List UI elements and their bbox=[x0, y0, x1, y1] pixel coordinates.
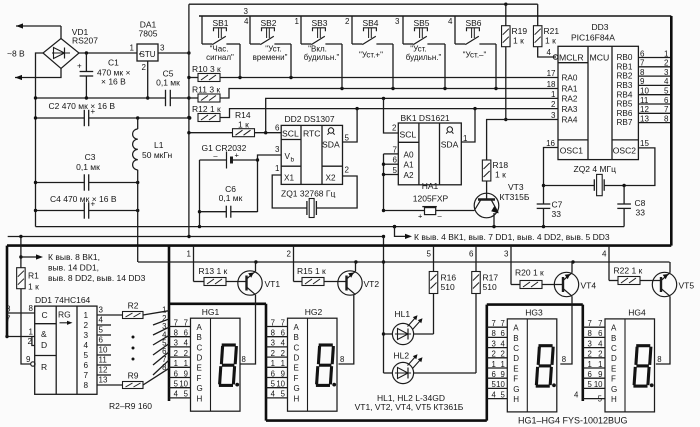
svg-text:A0: A0 bbox=[404, 150, 414, 159]
svg-text:5: 5 bbox=[598, 394, 603, 403]
label R2 bbox=[128, 301, 139, 311]
svg-text:3: 3 bbox=[587, 339, 591, 348]
svg-text:4: 4 bbox=[448, 17, 453, 26]
wire BK1 SDA bbox=[461, 109, 475, 142]
capacitor C4 470u bbox=[84, 200, 95, 219]
svg-text:8: 8 bbox=[242, 355, 246, 364]
svg-text:6: 6 bbox=[598, 329, 602, 338]
resistor R20 1k bbox=[511, 281, 563, 289]
svg-text:4: 4 bbox=[500, 339, 505, 348]
svg-text:× 16 В: × 16 В bbox=[101, 77, 126, 87]
rail C2 bbox=[34, 116, 192, 119]
svg-text:D: D bbox=[197, 354, 203, 363]
svg-text:2: 2 bbox=[184, 349, 188, 358]
+5V rail vertical bbox=[188, 4, 190, 235]
svg-text:1: 1 bbox=[271, 359, 275, 368]
label R17 bbox=[483, 273, 499, 293]
rail C3 bbox=[34, 181, 140, 184]
svg-text:2: 2 bbox=[587, 350, 591, 359]
svg-text:R17: R17 bbox=[483, 273, 499, 283]
svg-text:C7: C7 bbox=[552, 200, 563, 210]
svg-text:1: 1 bbox=[500, 360, 504, 369]
bus main horizontal bbox=[7, 244, 671, 247]
DD1 output stubs bbox=[97, 325, 111, 375]
resistor R16 510 bbox=[429, 272, 438, 335]
AC input arrow bottom bbox=[15, 69, 61, 81]
svg-text:R22 1 к: R22 1 к bbox=[614, 266, 643, 276]
svg-text:A: A bbox=[611, 324, 617, 333]
svg-text:КТ315Б: КТ315Б bbox=[500, 192, 530, 202]
svg-text:SB6: SB6 bbox=[465, 18, 481, 28]
svg-text:6: 6 bbox=[271, 369, 275, 378]
RTC DD2 box bbox=[281, 125, 342, 184]
svg-text:SB1: SB1 bbox=[212, 18, 228, 28]
transistor VT1 bbox=[238, 262, 262, 364]
svg-text:+: + bbox=[418, 212, 423, 221]
transistor VT4 bbox=[554, 262, 578, 364]
label SB3 bbox=[304, 18, 340, 62]
svg-text:7: 7 bbox=[393, 145, 398, 154]
bus net numbers top bbox=[244, 7, 454, 26]
pin 2 DA1 bbox=[142, 63, 147, 72]
bus tap 4 to R22 bbox=[602, 246, 609, 281]
svg-text:6: 6 bbox=[281, 329, 285, 338]
svg-text:R15 1 к: R15 1 к bbox=[297, 266, 326, 276]
label HG1 bbox=[202, 307, 246, 364]
svg-text:R: R bbox=[41, 362, 47, 372]
pin 3 DA1 bbox=[160, 44, 165, 53]
svg-text:1 к: 1 к bbox=[513, 36, 524, 46]
bus HG1-HG2 branch bbox=[169, 302, 266, 305]
svg-text:1: 1 bbox=[84, 311, 89, 320]
bus HG2 vertical bbox=[265, 304, 268, 421]
svg-text:RB4: RB4 bbox=[617, 90, 633, 99]
label R16 bbox=[441, 273, 457, 293]
svg-text:R19: R19 bbox=[512, 26, 528, 36]
display HG1 bbox=[169, 318, 240, 411]
pin 1 DA1 bbox=[130, 44, 135, 53]
svg-text:1 к: 1 к bbox=[28, 282, 39, 292]
svg-text:4: 4 bbox=[99, 316, 104, 325]
svg-text:SCL: SCL bbox=[282, 129, 299, 139]
svg-text:1: 1 bbox=[174, 359, 178, 368]
svg-text:4: 4 bbox=[281, 339, 286, 348]
svg-text:F: F bbox=[294, 374, 299, 383]
HG1 bus net numbers bbox=[162, 306, 167, 373]
svg-text:R14: R14 bbox=[235, 110, 251, 120]
label ~8 V bbox=[7, 49, 25, 59]
DD2 cell texts bbox=[282, 129, 340, 183]
label HL VT types bbox=[355, 393, 464, 412]
label R13 bbox=[199, 266, 228, 276]
label R1 bbox=[28, 271, 39, 292]
svg-text:18: 18 bbox=[547, 80, 556, 89]
DD1 output pin numbers bbox=[99, 306, 108, 385]
wire DD2 SDA bbox=[343, 109, 358, 142]
crystal ZQ2 4MHz bbox=[594, 174, 604, 195]
+5V feed wire bbox=[8, 235, 385, 238]
svg-text:R1: R1 bbox=[28, 271, 39, 281]
transistor VT3 KT315B bbox=[474, 193, 499, 226]
svg-text:RB1: RB1 bbox=[617, 62, 633, 71]
display HG4 bbox=[574, 319, 655, 412]
svg-text:R16: R16 bbox=[441, 273, 457, 283]
svg-text:8: 8 bbox=[84, 381, 89, 390]
svg-text:X2: X2 bbox=[326, 174, 336, 183]
svg-text:SCL: SCL bbox=[400, 130, 417, 140]
svg-text:SB3: SB3 bbox=[311, 18, 327, 28]
bus tap 1 to R13 bbox=[187, 246, 194, 282]
transistor VT2 bbox=[338, 262, 362, 364]
label BK1 DS1621 bbox=[401, 113, 450, 123]
svg-text:A: A bbox=[513, 324, 519, 333]
svg-text:1205FXP: 1205FXP bbox=[413, 194, 449, 204]
svg-text:"Уст.+": "Уст.+" bbox=[359, 51, 383, 60]
svg-text:A: A bbox=[197, 323, 203, 332]
svg-text:RA4: RA4 bbox=[562, 116, 578, 125]
svg-text:будильн.": будильн." bbox=[304, 53, 340, 62]
bus right vertical bbox=[670, 16, 673, 246]
label SB6 bbox=[463, 18, 487, 60]
svg-text:7: 7 bbox=[271, 318, 275, 327]
label R11 bbox=[192, 85, 220, 95]
resistor R18 1k bbox=[482, 160, 491, 200]
svg-text:3: 3 bbox=[504, 250, 509, 259]
svg-text:5: 5 bbox=[393, 166, 398, 175]
svg-text:SDA: SDA bbox=[322, 140, 340, 150]
svg-text:13: 13 bbox=[99, 376, 108, 385]
resistor R17 510 bbox=[472, 272, 481, 374]
resistor R12 1k bbox=[187, 114, 220, 122]
svg-text:VT4: VT4 bbox=[581, 281, 597, 291]
svg-text:VT2: VT2 bbox=[364, 279, 380, 289]
transistor VT5 bbox=[652, 262, 676, 364]
label G1 bbox=[202, 143, 247, 153]
svg-text:7: 7 bbox=[174, 318, 178, 327]
svg-text:A: A bbox=[294, 323, 300, 332]
bus net 8 to C bbox=[6, 305, 35, 314]
svg-text:R20 1 к: R20 1 к bbox=[515, 268, 544, 278]
bus bottom rail bbox=[266, 419, 487, 422]
svg-text:33: 33 bbox=[552, 209, 562, 219]
svg-text:SDA: SDA bbox=[441, 140, 459, 150]
svg-text:510: 510 bbox=[441, 282, 455, 292]
svg-text:1: 1 bbox=[184, 359, 188, 368]
svg-text:HG2: HG2 bbox=[305, 307, 323, 317]
svg-text:C: C bbox=[294, 343, 300, 352]
svg-text:C: C bbox=[513, 344, 519, 353]
inductor L1 50uH bbox=[133, 118, 138, 262]
gnd annotation arrow bbox=[393, 225, 412, 239]
pushbutton SB4 bbox=[352, 16, 393, 89]
svg-text:D: D bbox=[611, 354, 617, 363]
svg-text:4: 4 bbox=[547, 48, 552, 57]
svg-text:8: 8 bbox=[562, 355, 566, 364]
resistor R21 1k bbox=[533, 4, 556, 57]
bus tap 6 to R17 bbox=[469, 246, 476, 272]
svg-text:RG: RG bbox=[58, 310, 71, 320]
label R20 bbox=[515, 268, 544, 278]
label HG types bbox=[518, 416, 628, 426]
label SB5 bbox=[406, 18, 442, 62]
svg-text:HG4: HG4 bbox=[628, 308, 646, 318]
svg-text:будильн.": будильн." bbox=[406, 53, 442, 62]
svg-text:B: B bbox=[294, 333, 299, 342]
svg-text:H: H bbox=[197, 394, 203, 403]
svg-text:10: 10 bbox=[179, 380, 188, 389]
label OSC1 OSC2 bbox=[546, 139, 649, 156]
svg-text:3: 3 bbox=[244, 7, 249, 16]
svg-text:4: 4 bbox=[84, 341, 89, 350]
svg-text:0,1 мк: 0,1 мк bbox=[76, 162, 100, 172]
label R9 bbox=[128, 371, 139, 381]
svg-text:5: 5 bbox=[587, 380, 592, 389]
ellipsis R3-R8 bbox=[132, 336, 135, 361]
svg-text:F: F bbox=[513, 375, 518, 384]
svg-text:33: 33 bbox=[636, 208, 646, 218]
label C2 bbox=[49, 101, 116, 111]
svg-text:6: 6 bbox=[99, 336, 104, 345]
svg-text:2: 2 bbox=[491, 350, 495, 359]
svg-text:7: 7 bbox=[6, 315, 11, 324]
pushbutton SB6 bbox=[455, 16, 496, 89]
svg-text:К выв. 8 ВК1,: К выв. 8 ВК1, bbox=[48, 252, 100, 262]
wire BK1 address pins bbox=[382, 154, 399, 212]
svg-text:1: 1 bbox=[281, 359, 285, 368]
label C3 bbox=[76, 152, 100, 172]
svg-text:9: 9 bbox=[26, 355, 31, 364]
DD1 cell texts bbox=[41, 310, 73, 373]
svg-text:PIC16F84A: PIC16F84A bbox=[571, 33, 615, 43]
rail C4 bbox=[34, 209, 140, 212]
LED HL1 bbox=[384, 315, 434, 344]
svg-text:9: 9 bbox=[598, 370, 602, 379]
svg-text:5: 5 bbox=[184, 390, 189, 399]
svg-text:8: 8 bbox=[657, 355, 661, 364]
svg-text:VT1, VT2, VT4, VT5 КТ361Б: VT1, VT2, VT4, VT5 КТ361Б bbox=[355, 402, 464, 412]
svg-text:RB7: RB7 bbox=[617, 118, 633, 127]
svg-text:F: F bbox=[611, 375, 616, 384]
label ZQ1 bbox=[281, 189, 335, 199]
label R21 bbox=[544, 26, 560, 46]
label R14 bbox=[235, 110, 251, 130]
label C1 bbox=[97, 58, 130, 87]
label VD1 RS207 bbox=[72, 27, 99, 46]
battery G1 CR2032 bbox=[200, 151, 258, 169]
svg-text:B: B bbox=[611, 334, 616, 343]
wire X1 bbox=[272, 175, 307, 208]
label HG3 bbox=[525, 308, 566, 365]
bus HG3-HG4 branch bbox=[487, 303, 583, 306]
DD1 input pin numbers bbox=[26, 304, 34, 364]
svg-text:VT5: VT5 bbox=[679, 281, 695, 291]
display HG2 bbox=[266, 318, 337, 411]
capacitor C3 0.1u bbox=[84, 174, 88, 190]
wire BK1 SCL bbox=[384, 98, 399, 133]
label HG4 bbox=[628, 308, 661, 365]
svg-text:8: 8 bbox=[174, 329, 178, 338]
svg-text:C1: C1 bbox=[108, 58, 119, 68]
svg-text:H: H bbox=[294, 394, 300, 403]
label SB1 bbox=[206, 18, 234, 62]
pin MCLR bbox=[547, 48, 610, 63]
bus tap to D inputs bbox=[5, 335, 34, 346]
label SB4 bbox=[359, 18, 383, 60]
svg-text:3: 3 bbox=[551, 111, 556, 120]
wire RA4 to R18 bbox=[487, 120, 558, 161]
regulator DA1 7805 bbox=[137, 44, 158, 61]
DD2 clock symbol bbox=[327, 128, 334, 135]
svg-text:R11 3 к: R11 3 к bbox=[192, 85, 220, 95]
label DA1 7805 bbox=[139, 20, 158, 39]
svg-text:E: E bbox=[513, 364, 518, 373]
svg-text:RB6: RB6 bbox=[617, 109, 633, 118]
svg-text:&: & bbox=[41, 329, 47, 339]
svg-text:G: G bbox=[197, 384, 203, 393]
svg-text:R2–R9 160: R2–R9 160 bbox=[109, 401, 152, 411]
label VT1 bbox=[265, 279, 281, 289]
svg-text:R2: R2 bbox=[128, 301, 139, 311]
wire OSC2 bbox=[604, 148, 655, 186]
label DD2 DS1307 bbox=[285, 114, 335, 124]
svg-text:HL1: HL1 bbox=[395, 309, 411, 319]
svg-text:A1: A1 bbox=[404, 161, 414, 170]
AC input arrow top bbox=[16, 23, 61, 38]
resistor R1 1k bbox=[17, 237, 26, 289]
wire RA1 row bbox=[220, 87, 558, 98]
svg-text:C2 470 мк × 16 В: C2 470 мк × 16 В bbox=[49, 101, 116, 111]
svg-text:D: D bbox=[41, 340, 47, 350]
svg-text:5: 5 bbox=[99, 326, 104, 335]
svg-text:4: 4 bbox=[244, 17, 249, 26]
wire bridge left to gnd rail bbox=[36, 53, 44, 227]
svg-text:G1 CR2032: G1 CR2032 bbox=[202, 143, 247, 153]
svg-text:+: + bbox=[77, 62, 82, 71]
svg-text:RA1: RA1 bbox=[562, 85, 578, 94]
svg-text:4: 4 bbox=[271, 390, 276, 399]
svg-text:4: 4 bbox=[174, 390, 179, 399]
svg-text:1: 1 bbox=[29, 328, 34, 337]
svg-text:1: 1 bbox=[598, 360, 602, 369]
svg-text:C: C bbox=[197, 343, 203, 352]
svg-text:11: 11 bbox=[99, 356, 108, 365]
svg-text:1 к: 1 к bbox=[238, 120, 249, 130]
label R2-R9 160 bbox=[109, 401, 152, 411]
svg-text:9: 9 bbox=[500, 370, 504, 379]
svg-text:HA1: HA1 bbox=[422, 181, 439, 191]
svg-text:OSC2: OSC2 bbox=[613, 146, 636, 156]
svg-text:C3: C3 bbox=[85, 152, 96, 162]
svg-text:6: 6 bbox=[184, 329, 188, 338]
svg-text:B: B bbox=[513, 334, 518, 343]
svg-text:C: C bbox=[611, 344, 617, 353]
svg-text:H: H bbox=[513, 395, 519, 404]
pushbutton SB2 bbox=[250, 16, 291, 78]
svg-text:HG3: HG3 bbox=[525, 308, 543, 318]
resistor R10 3k bbox=[187, 74, 220, 82]
capacitor C1 470u bbox=[77, 53, 93, 98]
svg-text:7: 7 bbox=[84, 371, 89, 380]
svg-text:2: 2 bbox=[174, 349, 178, 358]
label R22 bbox=[614, 266, 643, 276]
svg-text:2: 2 bbox=[142, 63, 147, 72]
svg-text:10: 10 bbox=[276, 380, 285, 389]
svg-text:"Уст.–": "Уст.–" bbox=[463, 51, 487, 60]
svg-text:HG1–HG4 FYS-10012BUG: HG1–HG4 FYS-10012BUG bbox=[518, 416, 628, 426]
resistor R2 160 bbox=[97, 311, 169, 319]
svg-text:0,1 мк: 0,1 мк bbox=[156, 78, 180, 88]
svg-text:15: 15 bbox=[640, 139, 649, 148]
svg-text:7: 7 bbox=[491, 319, 495, 328]
svg-text:7: 7 bbox=[281, 318, 285, 327]
label R10 bbox=[192, 64, 221, 74]
svg-text:R13 1 к: R13 1 к bbox=[199, 266, 228, 276]
svg-text:1: 1 bbox=[275, 164, 280, 173]
svg-text:5: 5 bbox=[427, 250, 432, 259]
capacitor C7 33 bbox=[537, 204, 551, 227]
DD2 pin numbers bbox=[275, 124, 349, 175]
label VT4 bbox=[581, 281, 597, 291]
svg-text:8: 8 bbox=[271, 329, 275, 338]
bus HG4 vertical bbox=[581, 305, 584, 401]
svg-text:2: 2 bbox=[271, 349, 275, 358]
svg-text:H: H bbox=[611, 395, 617, 404]
svg-text:6: 6 bbox=[393, 156, 398, 165]
svg-text:5: 5 bbox=[174, 380, 179, 389]
svg-text:2: 2 bbox=[281, 349, 285, 358]
svg-text:1: 1 bbox=[551, 90, 556, 99]
thermometer BK1 box bbox=[398, 123, 461, 185]
label ZQ2 bbox=[574, 164, 617, 174]
buzzer HA1 1205FXP bbox=[384, 207, 443, 221]
svg-text:3: 3 bbox=[491, 339, 495, 348]
svg-text:10: 10 bbox=[594, 380, 603, 389]
svg-text:G: G bbox=[294, 384, 300, 393]
svg-text:5: 5 bbox=[500, 390, 505, 399]
resistor R9 160 bbox=[97, 368, 169, 388]
wire RA0 row bbox=[220, 76, 558, 79]
svg-text:8: 8 bbox=[340, 355, 344, 364]
svg-text:7805: 7805 bbox=[139, 29, 158, 39]
svg-text:OSC1: OSC1 bbox=[560, 146, 583, 156]
resistor R14 1k bbox=[187, 129, 254, 137]
pushbutton SB3 bbox=[301, 16, 342, 89]
svg-text:510: 510 bbox=[483, 282, 497, 292]
capacitor C5 0.1u bbox=[166, 90, 191, 106]
svg-text:RS207: RS207 bbox=[72, 36, 98, 46]
capacitor C2 470u bbox=[84, 107, 95, 126]
capacitor C6 0.1u bbox=[200, 206, 258, 218]
svg-text:8: 8 bbox=[162, 363, 166, 372]
BK1 clock symbol bbox=[446, 127, 453, 134]
svg-text:50 мкГн: 50 мкГн bbox=[142, 150, 173, 160]
svg-text:8: 8 bbox=[587, 329, 591, 338]
svg-text:1: 1 bbox=[187, 250, 192, 259]
resistor R22 1k bbox=[609, 277, 661, 285]
pushbutton SB1 bbox=[202, 16, 240, 78]
display supply row bbox=[138, 260, 670, 263]
MCU RA labels and pins bbox=[547, 69, 578, 125]
svg-text:4: 4 bbox=[574, 390, 579, 399]
svg-text:R10 3 к: R10 3 к bbox=[192, 64, 221, 74]
DD1 R pin wire bbox=[21, 289, 35, 366]
display HG3 bbox=[487, 319, 557, 412]
resistor R15 1k bbox=[294, 278, 347, 286]
wire VT3 collector to HA1 bbox=[436, 210, 475, 212]
svg-text:E: E bbox=[197, 364, 202, 373]
svg-text:6: 6 bbox=[469, 250, 474, 259]
svg-text:X1: X1 bbox=[284, 174, 294, 183]
